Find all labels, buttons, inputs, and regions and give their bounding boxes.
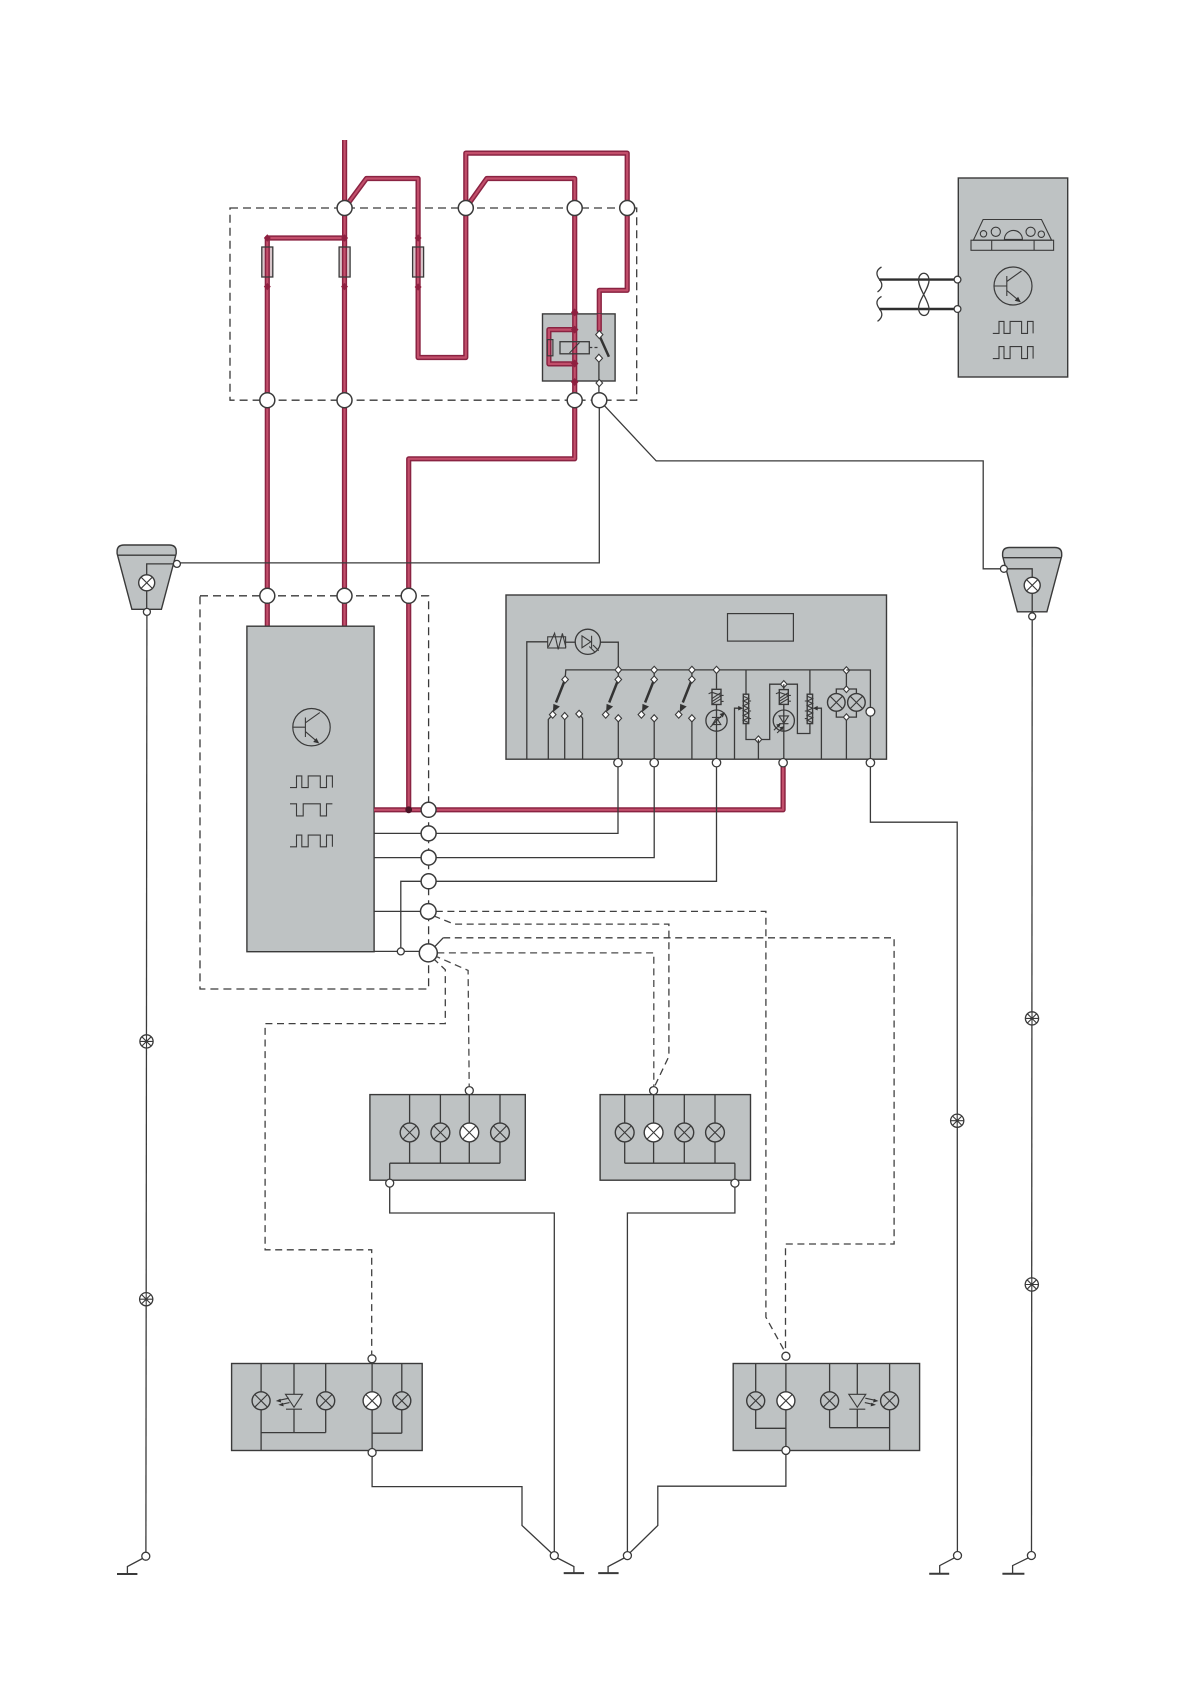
square wave icon row 3 (module) xyxy=(290,835,332,847)
illumination LED circle xyxy=(575,629,600,654)
contact diamond relay switch bottom xyxy=(595,354,602,362)
wire battery feed 30 (red, main vertical into fuse box) xyxy=(342,140,347,247)
rear left lamp 1 cross xyxy=(255,1394,268,1407)
connector node on fuse box top edge (battery feed) xyxy=(337,201,352,216)
left side marker feed pin xyxy=(173,560,180,567)
pilot lamp left cross xyxy=(830,696,842,708)
switch 2 contact wire xyxy=(617,718,619,759)
contact diamond S1 a xyxy=(549,711,556,718)
contact diamond S3 a xyxy=(638,711,645,718)
switch 1 blade arrowhead xyxy=(553,704,560,712)
rear left LED arrows xyxy=(279,1398,290,1404)
contact diamond S3 b xyxy=(651,715,658,722)
bus diamond pilot lamps xyxy=(843,667,850,674)
screw terminal left wire lower xyxy=(140,1293,153,1306)
front left turn signal pin xyxy=(465,1087,473,1095)
rear right lamp 5 xyxy=(881,1392,899,1410)
switch 1 contact wires xyxy=(548,714,582,759)
front left lamp wires xyxy=(390,1095,500,1180)
switch 2 blade arrowhead xyxy=(606,704,613,712)
wire relay coil feed (red, through relay to flasher module) xyxy=(409,179,575,810)
wire rear right cluster to ground xyxy=(630,1454,786,1553)
relay coil diagonal xyxy=(570,343,580,354)
element B wiper wire to case bottom xyxy=(735,708,740,759)
rear right turn signal top pin xyxy=(782,1352,790,1360)
wire front left cluster to ground xyxy=(390,1187,555,1552)
bus diamond switch 4 xyxy=(689,666,696,673)
front right lamp 3 xyxy=(675,1123,694,1142)
switch bottom pin 4 (red feed) xyxy=(779,759,787,767)
junction diamond at F3 bottom xyxy=(415,283,422,290)
right side marker internal wires xyxy=(1006,569,1032,615)
twist symbol figure-eight xyxy=(919,273,929,315)
central module dashed boundary xyxy=(200,596,429,989)
screw terminal right marker wire upper xyxy=(1025,1012,1038,1025)
junction diamond at F2 feed xyxy=(341,234,348,241)
element A inductor zigzag xyxy=(709,692,724,704)
wire module pin 6 xyxy=(374,950,419,952)
fuse F1 xyxy=(262,247,273,277)
dashed wire circle5 to rear right lamp xyxy=(436,911,785,1352)
dashed wire circle5 to front right lamp xyxy=(434,916,669,1087)
left side marker cap line xyxy=(118,554,176,556)
connector node fuse box bottom (fuse F2 wire) xyxy=(337,393,352,408)
wire module output (red) to hazard switch red pin xyxy=(374,764,783,810)
switch bottom pin 1 xyxy=(614,759,622,767)
wire feed to fuse F3 (red, diagonal from node) xyxy=(345,179,419,248)
dashboard icon trapezoid xyxy=(973,220,1051,241)
front right lamp 3 cross xyxy=(678,1126,691,1139)
bus stub switch 3 xyxy=(653,670,655,680)
rear right LED diode symbol xyxy=(849,1394,866,1409)
front right lamp 1 xyxy=(615,1123,634,1142)
rear left lamp 5 xyxy=(393,1392,411,1410)
rear right cluster wires xyxy=(756,1364,890,1451)
rear right turn signal cross xyxy=(780,1394,793,1407)
pilot bracket diamond top xyxy=(843,686,849,693)
bus diamond element A xyxy=(713,666,720,673)
illumination resistor box xyxy=(548,637,566,648)
rear right ground pin xyxy=(782,1446,790,1454)
staircase diamond xyxy=(755,736,762,743)
flasher control module body xyxy=(247,626,374,952)
element C inductor zigzag xyxy=(776,692,791,704)
pilot lamps ground drop xyxy=(845,717,847,759)
illumination LED diode symbol xyxy=(582,636,599,653)
ground terminal right marker xyxy=(1002,1552,1035,1574)
connector node module dashed top (fuse F2 wire) xyxy=(337,588,352,603)
transistor icon symbol (module) xyxy=(293,713,320,743)
element A diagonal arrow xyxy=(710,714,723,727)
transistor icon emitter arrowhead (module) xyxy=(313,738,319,744)
element B to element D linking staircase xyxy=(746,684,810,739)
contact diamond S2 b xyxy=(615,715,622,722)
dashed wire circle6 to front left lamp xyxy=(434,955,470,1086)
element D feed wire xyxy=(809,670,811,694)
wire relay switch feed inside relay (red) xyxy=(597,314,602,332)
pilot lamp right cross xyxy=(850,696,862,708)
switch right edge output wire xyxy=(846,670,870,764)
pilot lamps bus stub xyxy=(845,670,847,689)
junction diamond at F3 top xyxy=(415,234,422,241)
wire left side marker to ground xyxy=(146,615,147,1552)
switch 4 contact wire xyxy=(691,718,693,759)
front right lamp wires xyxy=(625,1095,735,1180)
pilot bracket diamond bottom xyxy=(843,714,849,721)
front left ground pin xyxy=(386,1179,394,1187)
transistor icon circle (module) xyxy=(293,709,330,746)
element D resistor zigzag xyxy=(805,696,813,722)
bus stub switch 4 xyxy=(691,670,693,680)
connector node on fuse box top edge (loop to relay switch) xyxy=(620,201,635,216)
contact diamond relay switch top xyxy=(596,331,603,339)
pivot diamond switch 4 xyxy=(689,676,696,683)
rear left cluster wires xyxy=(261,1364,402,1451)
switch 4 blade xyxy=(683,680,692,703)
wire module pin 2 to switch pin 1 xyxy=(374,765,618,833)
element B wiper arrowhead xyxy=(738,706,743,711)
rear right lamp 3 xyxy=(821,1392,839,1410)
front left lamp 2 cross xyxy=(434,1126,447,1139)
screw terminal left wire upper xyxy=(140,1035,153,1048)
element C inductor box xyxy=(779,690,788,705)
relay switch output wire xyxy=(598,358,600,400)
solid stub circle6 upper xyxy=(433,938,443,948)
connector node fuse box bottom (fuse F1 wire) xyxy=(260,393,275,408)
square wave icon row 2 (module) xyxy=(290,804,332,816)
front right turn signal lamp (white) xyxy=(644,1123,663,1142)
front left turn signal cross xyxy=(463,1126,476,1139)
left side marker bulb xyxy=(139,575,155,591)
contact diamond relay case exit xyxy=(596,379,603,386)
front left lamp 4 xyxy=(491,1123,510,1142)
dashboard speedometer arch xyxy=(1004,230,1022,239)
switch 3 blade arrowhead xyxy=(642,704,649,712)
relay (turn signal relay) body xyxy=(543,314,616,381)
red diamond relay bottom exit xyxy=(571,378,579,386)
rear right lamp 1 xyxy=(747,1392,765,1410)
wire switch ground to right side xyxy=(870,767,957,1552)
junction diamond at F1 bottom xyxy=(264,283,271,290)
pin circle cluster lower xyxy=(954,306,961,313)
element D wiper arrowhead xyxy=(813,706,818,711)
front right lamp 4 xyxy=(706,1123,725,1142)
rear left lamp 3 xyxy=(317,1392,335,1410)
illumination resistor zigzag xyxy=(548,633,566,649)
relay switch blade xyxy=(600,337,609,357)
connector node fuse box bottom (relay switch output) xyxy=(592,393,607,408)
pivot diamond switch 1 xyxy=(562,676,569,683)
rear right lamp 5 cross xyxy=(883,1394,896,1407)
wire resistor to LED xyxy=(566,641,576,643)
rear right LED arrows xyxy=(865,1398,876,1404)
left side marker lamp body xyxy=(117,545,176,609)
connector node module dashed top (fuse F1 wire) xyxy=(260,588,275,603)
right side marker bulb xyxy=(1024,577,1040,593)
rear left lamp cluster body xyxy=(232,1364,423,1451)
twisted pair wire upper xyxy=(879,278,955,280)
relay coil box xyxy=(560,342,589,354)
connector node fuse box bottom (relay coil feed) xyxy=(567,393,582,408)
connector node on fuse box top edge (loop A) xyxy=(458,201,473,216)
element A inductor box xyxy=(712,689,721,704)
fuse F2 xyxy=(339,247,350,277)
right side marker cap line xyxy=(1003,557,1061,559)
switch 1 blade xyxy=(556,680,565,703)
switch common bus xyxy=(565,670,846,680)
rear left lamp 5 cross xyxy=(395,1394,408,1407)
transistor icon symbol (cluster) xyxy=(994,271,1022,302)
bus stub switch 2 xyxy=(617,670,619,680)
connector node module right edge pin 2 xyxy=(421,826,436,841)
rear left LED diode symbol xyxy=(286,1394,303,1409)
wire module pin 4 branch to switch pin 3 xyxy=(401,765,717,951)
contact diamond S4 a xyxy=(675,711,682,718)
connector node module right edge pin 5 xyxy=(421,904,437,920)
connector node module right edge pin 4 xyxy=(421,874,436,889)
element D resistor box xyxy=(807,694,812,723)
wire LED to switch bus xyxy=(600,642,618,670)
pilot lamps top bracket xyxy=(836,689,856,694)
relay actuation dashed link xyxy=(589,347,599,349)
wire jumper to fuse F1 (red) xyxy=(267,238,344,247)
front left lamp 1 cross xyxy=(403,1126,416,1139)
dashed wire circle6 to rear left lamp xyxy=(265,958,445,1354)
square wave icon row 2 (cluster) xyxy=(993,347,1033,359)
element C LED diode xyxy=(779,716,788,724)
ground terminal center left xyxy=(550,1552,584,1574)
switch 3 contact wire xyxy=(653,718,655,759)
switch bottom pin 2 xyxy=(650,759,658,767)
contact diamond S1 b xyxy=(561,713,568,720)
hazard / turn signal switch unit body xyxy=(506,595,887,759)
pin circle cluster upper xyxy=(954,276,961,283)
right side marker lamp body xyxy=(1003,548,1062,612)
bus diamond switch 3 xyxy=(651,666,658,673)
right side marker feed pin xyxy=(1000,565,1007,572)
front right turn signal cross xyxy=(647,1126,660,1139)
twisted pair continuation squiggle lower xyxy=(877,296,882,321)
twisted pair wire lower xyxy=(879,308,955,310)
rear left lamp 1 xyxy=(252,1392,270,1410)
switch 2 blade xyxy=(609,680,618,703)
wire module pin 3 to switch pin 2 xyxy=(374,765,654,858)
rear right lamp 3 cross xyxy=(823,1394,836,1407)
element B feed wire xyxy=(745,670,747,694)
dashboard gauge circle 3 xyxy=(1026,227,1035,236)
ground terminal left marker xyxy=(117,1552,150,1574)
front left lamp 2 xyxy=(431,1123,450,1142)
switch 3 blade xyxy=(645,680,654,703)
element A LED circle xyxy=(706,710,727,731)
front right lamp 1 cross xyxy=(618,1126,631,1139)
front right lamp cluster body xyxy=(600,1095,750,1181)
right side marker ground pin xyxy=(1029,613,1036,620)
left side marker ground pin xyxy=(143,608,150,615)
front left lamp 4 cross xyxy=(493,1126,506,1139)
pivot diamond switch 3 xyxy=(651,676,658,683)
rear right turn signal lamp (white) xyxy=(777,1392,795,1410)
connector node module right edge pin 6 xyxy=(419,944,437,962)
rear left ground pin xyxy=(368,1449,376,1457)
wire module pin 5 xyxy=(374,910,421,912)
wire fuse F2 output to flasher module (red) xyxy=(342,247,347,627)
red diamond coil hook top xyxy=(571,326,579,334)
twisted pair continuation squiggle upper xyxy=(877,267,882,292)
bus diamond switch 2 xyxy=(615,666,622,673)
fuse F3 body fill xyxy=(413,247,424,277)
junction diamond at F1 top xyxy=(264,234,271,241)
wire right side marker to ground xyxy=(1031,620,1034,1552)
element C arrowheads xyxy=(776,723,784,730)
wire relay output to right side marker xyxy=(599,400,1003,569)
wire relay coil hook (red) xyxy=(549,330,575,364)
dashboard icon base bar xyxy=(971,240,1054,250)
rear left turn signal lamp (white) xyxy=(363,1392,381,1410)
element C output wire xyxy=(783,731,785,763)
wire fuse F3 output loop to relay switch contact (red) xyxy=(418,153,627,357)
pilot lamps bottom bracket xyxy=(836,711,856,717)
element D wiper wire to case bottom xyxy=(816,708,821,759)
left side marker bulb cross xyxy=(141,577,152,588)
transistor icon circle (cluster) xyxy=(994,267,1032,305)
dashboard icon base divider left xyxy=(991,240,993,250)
element C LED circle xyxy=(773,710,794,731)
screw terminal switch ground wire xyxy=(951,1114,964,1127)
left side marker internal wires xyxy=(147,564,174,610)
square wave icon row 1 (module) xyxy=(290,776,332,788)
ground terminal switch xyxy=(929,1552,961,1574)
dashboard gauge small circle 1 xyxy=(980,231,986,237)
fuse F3 xyxy=(413,247,424,277)
switch illumination feed wire xyxy=(527,642,548,759)
dashboard gauge circle 2 xyxy=(991,227,1000,236)
rear left turn signal top pin xyxy=(368,1355,376,1363)
instrument cluster / CEM node box xyxy=(958,178,1067,377)
square wave icon row 1 (cluster) xyxy=(993,321,1033,333)
wire front right cluster to ground xyxy=(627,1187,735,1552)
right edge junction circle xyxy=(866,707,875,716)
contact diamond S4 b xyxy=(689,715,696,722)
red diamond relay top entry xyxy=(571,308,579,316)
red junction dot at module feed xyxy=(405,806,412,813)
connector node on fuse box top edge (relay coil feed) xyxy=(567,201,582,216)
pivot diamond switch 2 xyxy=(615,676,622,683)
switch bottom pin 5 (ground) xyxy=(866,759,874,767)
front left turn signal lamp (white) xyxy=(460,1123,479,1142)
junction diamond at F2 bottom xyxy=(341,283,348,290)
red diamond coil hook bottom xyxy=(571,360,579,368)
pilot lamp right xyxy=(848,694,866,712)
element A output wire xyxy=(716,731,718,763)
fuse box / central electrical unit (dashed boundary) xyxy=(230,208,637,400)
wire rear left cluster to ground xyxy=(372,1457,552,1554)
contact diamond S2 a xyxy=(602,711,609,718)
screw terminal right marker wire lower xyxy=(1025,1278,1038,1291)
element C light arrows xyxy=(774,725,783,733)
rear left turn signal cross xyxy=(366,1394,379,1407)
dashed wire circle6 to front right lamp xyxy=(437,953,654,1086)
element B resistor box xyxy=(743,694,748,723)
dashboard gauge small circle 4 xyxy=(1038,231,1044,237)
element A wire to LED xyxy=(716,705,718,732)
wire fuse F1 output to flasher module (red) xyxy=(265,247,270,627)
rear right lamp 1 cross xyxy=(749,1394,762,1407)
dashed wire circle6 to rear right lamp xyxy=(443,938,894,1352)
element C top diamond xyxy=(781,681,788,688)
front right turn signal pin xyxy=(650,1087,658,1095)
transistor icon emitter arrowhead (cluster) xyxy=(1015,297,1021,303)
right side marker bulb cross xyxy=(1027,580,1038,591)
wire relay output to left side marker xyxy=(177,400,599,563)
staircase ground drop xyxy=(757,740,759,760)
connector node module dashed top (relay coil feed) xyxy=(401,588,416,603)
flasher element A feed wire xyxy=(716,670,718,689)
rear left lamp 3 cross xyxy=(319,1394,332,1407)
fuse F1 body fill xyxy=(262,247,273,277)
front right ground pin xyxy=(731,1179,739,1187)
small junction circle on pin 6 wire xyxy=(397,948,404,955)
switch 4 blade arrowhead xyxy=(680,704,687,712)
element A arrowhead xyxy=(720,712,725,717)
contact diamond S1 c xyxy=(576,710,583,717)
relay coil resistor (small rect) xyxy=(547,340,553,356)
front left lamp 1 xyxy=(400,1123,419,1142)
ground terminal center right xyxy=(598,1552,631,1574)
dashboard icon base divider right xyxy=(1033,240,1035,250)
pilot lamp left xyxy=(828,694,846,712)
rear right lamp cluster body xyxy=(733,1364,919,1451)
wire relay coil feed inside relay (red, redrawn over relay body) xyxy=(572,314,577,381)
element C feed wire xyxy=(783,684,785,689)
connector node module right edge (red output) xyxy=(421,802,436,817)
switch display window xyxy=(728,614,794,642)
front left lamp cluster body xyxy=(370,1095,525,1181)
connector node module right edge pin 3 xyxy=(421,850,436,865)
front right lamp 4 cross xyxy=(708,1126,721,1139)
element B resistor zigzag xyxy=(743,696,751,722)
switch bottom pin 3 xyxy=(712,759,720,767)
fuse F2 body fill xyxy=(339,247,350,277)
element A LED diode xyxy=(712,717,721,724)
element C wire to LED xyxy=(783,704,785,731)
